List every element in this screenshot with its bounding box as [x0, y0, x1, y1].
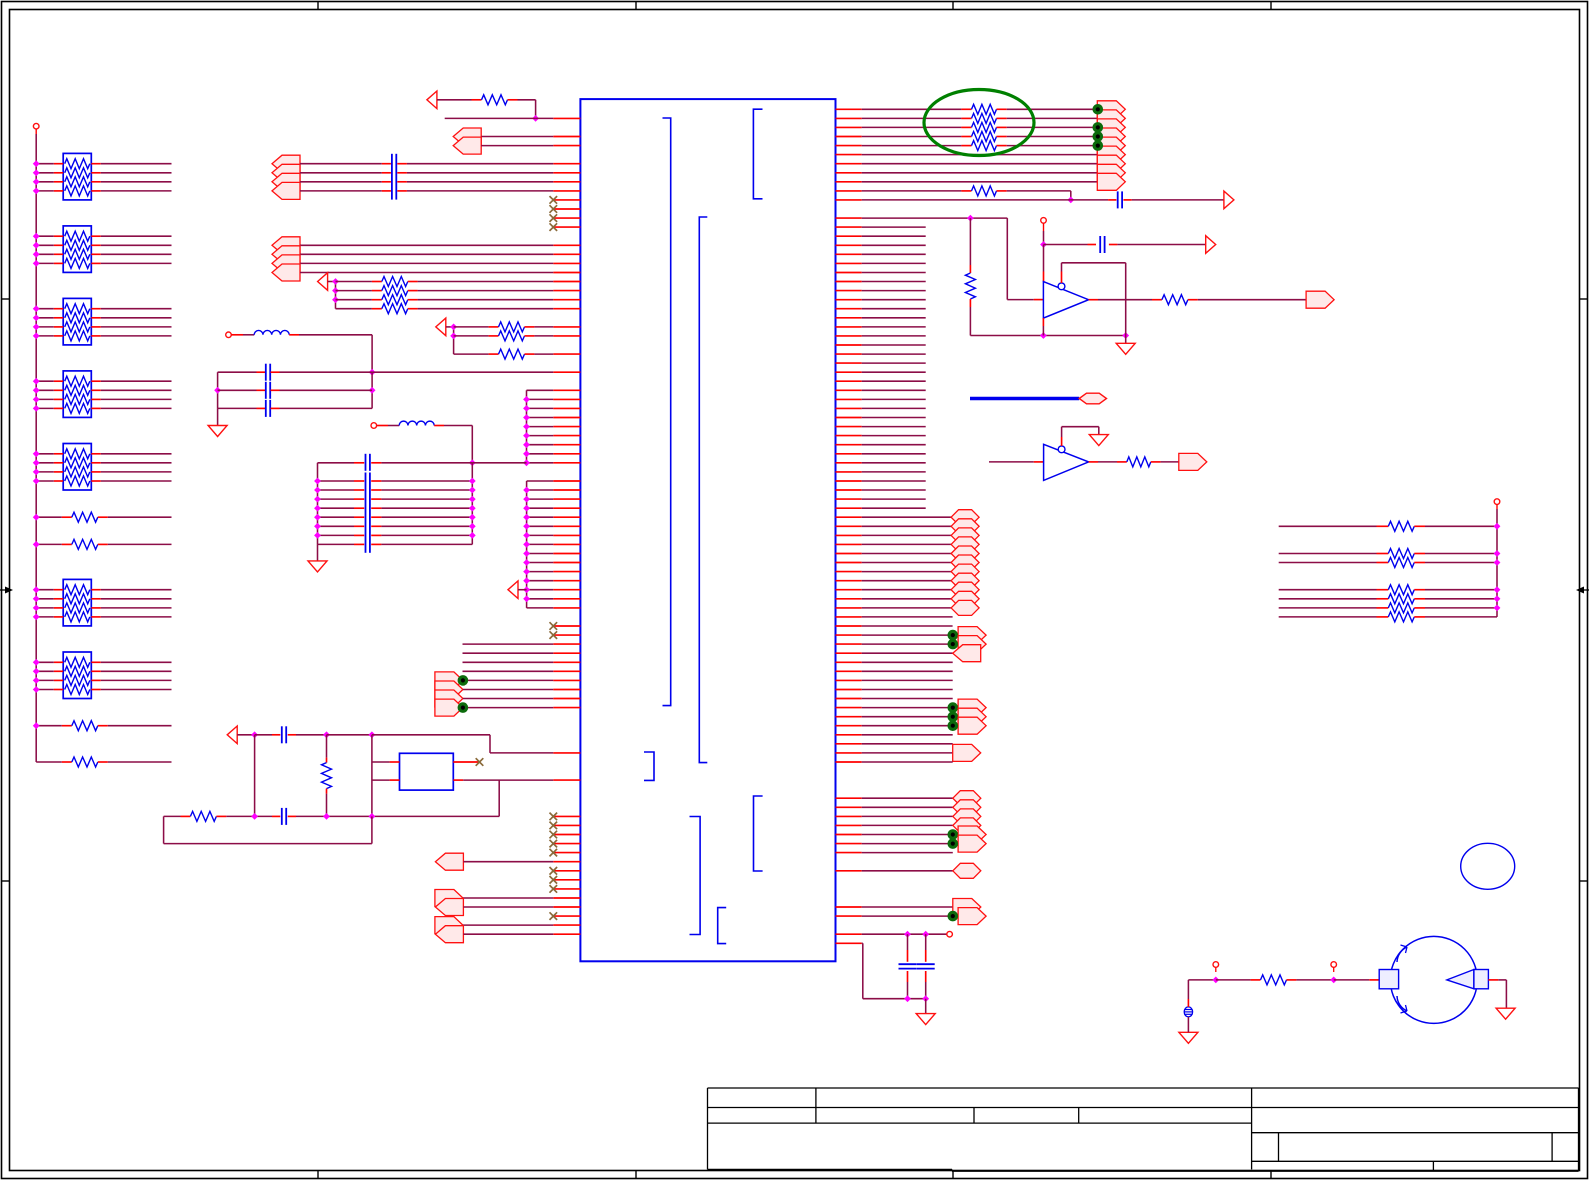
wire row 62 — [463, 670, 554, 672]
wire down to row29 — [371, 335, 373, 372]
node r12 — [967, 215, 974, 222]
resistor pack RP3 pin wires row 25 — [54, 335, 63, 337]
node capbank R 41 — [469, 478, 476, 485]
U2 left pin row74 — [390, 779, 400, 781]
resistor R row 27 — [499, 349, 525, 359]
wire row 63 — [463, 679, 553, 681]
bus vertical rows 31-39 — [526, 390, 528, 463]
pin left row 59 — [553, 643, 580, 645]
wire row 18 stub — [862, 272, 926, 274]
wire R to IC row 24 — [525, 326, 535, 328]
wire row 50 — [862, 562, 951, 564]
resistor pack RP5 pin wires row 41 — [54, 480, 63, 482]
wire row 21 stub — [862, 299, 926, 301]
wire r3 b — [997, 136, 1007, 138]
U3 bottom lead — [1042, 318, 1044, 326]
cap C10 lead b — [925, 971, 927, 982]
wire row 60 — [862, 652, 953, 654]
no-connect pin left row 84 — [553, 870, 580, 872]
pin left row 51 — [553, 571, 580, 573]
pin left row 38 — [553, 453, 580, 455]
pin right row 21 — [836, 299, 862, 301]
wire net row 49 b — [1414, 553, 1425, 555]
U3 output — [1089, 299, 1098, 301]
wire net row 55 a — [1279, 607, 1377, 609]
ground symbol G5 — [1089, 435, 1108, 446]
node bus2 row 44 — [523, 505, 530, 512]
ground symbol G1 — [217, 408, 219, 425]
wire row 20 stub — [862, 290, 926, 292]
pin right row 79 — [836, 824, 862, 826]
chevron row 60 — [953, 645, 981, 662]
border tick right 2 — [1580, 880, 1588, 882]
pin right row 16 — [836, 253, 862, 255]
resistor R1 — [36, 516, 62, 518]
pin left row 17 — [553, 262, 580, 264]
border tick top 1 — [317, 2, 319, 10]
pin right row 55 — [836, 607, 862, 609]
wire r2 b — [997, 126, 1007, 128]
cap C10 leads — [925, 934, 927, 950]
node 244 — [1040, 241, 1047, 248]
wire bus2 row 55 to IC — [527, 607, 554, 609]
wire net row 46 b — [1414, 525, 1425, 527]
pin right row 37 — [836, 444, 862, 446]
border tick top 3 — [952, 2, 954, 10]
wire row 15 stub — [862, 244, 926, 246]
node bus row 19 — [332, 278, 339, 285]
wire row 4 — [481, 145, 553, 147]
capacitor bank plates upper — [365, 454, 367, 471]
output flag T14 — [1179, 453, 1207, 470]
wire row 38 stub — [862, 453, 926, 455]
wire r7 — [862, 172, 1098, 174]
no-connect pin left row 89 — [553, 915, 580, 917]
pin right row 26 — [836, 344, 862, 346]
wire into motor — [1334, 979, 1370, 981]
pin right row 50 — [836, 562, 862, 564]
wire row 55 — [862, 607, 951, 609]
node bus1 row 33 — [523, 405, 530, 412]
wire capbank row 46 right — [371, 525, 381, 527]
node bus2 row 47 — [523, 532, 530, 539]
resistor pack RP1 pin wires row 6 — [54, 163, 63, 165]
node bus1 row 32 — [523, 396, 530, 403]
wire capbank row 39 right — [371, 462, 381, 464]
node bus2 row 46 — [523, 523, 530, 530]
node right bus 49 — [1494, 550, 1501, 557]
vertical c — [371, 735, 373, 817]
pin right row 62 — [836, 670, 862, 672]
motor M1 brush arcs — [1397, 947, 1407, 962]
power terminal T1 — [33, 123, 39, 129]
pin right row 66 — [836, 707, 862, 709]
pin right row 58 — [836, 634, 862, 636]
node 69b — [323, 731, 330, 738]
pin right row 64 — [836, 689, 862, 691]
wire row 92 corner — [862, 942, 863, 944]
wire capbank row 48 right — [371, 543, 381, 545]
pin left row 7 — [553, 172, 580, 174]
node capbank R 42 — [469, 487, 476, 494]
bus entry row 46 — [951, 519, 979, 534]
resistor pack RP4 pin wires row 32 — [54, 398, 63, 400]
green dot row 89 — [948, 911, 959, 922]
wire bus row 34 to IC — [527, 417, 554, 419]
wire R19 to motor — [1287, 979, 1297, 981]
pin right row 15 — [836, 244, 862, 246]
pin right row 80 — [836, 834, 862, 836]
node capbank L 43 — [314, 496, 321, 503]
pin right row 44 — [836, 507, 862, 509]
connector J2 chevron 4 — [272, 264, 300, 281]
ground symbol G2 — [317, 544, 319, 561]
title block — [708, 1087, 1579, 1089]
wire bus to R row 22 — [336, 308, 372, 310]
pin left row 27 — [553, 353, 580, 355]
no-connect pin left row 82 — [553, 852, 580, 854]
pin right row 70 — [836, 743, 862, 745]
resistor pack RP3 — [63, 298, 91, 345]
node bus1 row 39 — [523, 459, 530, 466]
pin left row 48 — [553, 543, 580, 545]
op-amp U3 — [1043, 282, 1088, 319]
pin right row 47 — [836, 534, 862, 536]
pin right row 9 — [836, 190, 862, 192]
pin right row 0 — [836, 108, 862, 110]
capacitor CA3 — [265, 400, 267, 417]
wire R to IC row 20 — [408, 290, 418, 292]
pin left row 37 — [553, 444, 580, 446]
green dot row 0 — [1093, 104, 1104, 115]
terminal T13 — [947, 931, 953, 937]
flag row 80 — [958, 826, 986, 843]
resistor R row 54 — [1388, 594, 1414, 604]
wire r0 a — [862, 108, 962, 110]
resistor pack RP1 — [63, 153, 91, 200]
wire r12 — [862, 217, 1008, 219]
wire row 68 — [862, 725, 953, 727]
wire row 52 — [862, 580, 951, 582]
resistor pack RP7 pin wires row 62 — [54, 670, 63, 672]
node 335b — [1122, 332, 1129, 339]
node row31 right — [369, 387, 376, 394]
pin right row 39 — [836, 462, 862, 464]
left power bus — [35, 134, 37, 762]
decorative ellipse — [1461, 843, 1515, 889]
no-connect pin left row 78 — [553, 815, 580, 817]
pin left row 25 — [553, 335, 580, 337]
resistor pack RP7 pin wires row 63 — [54, 679, 63, 681]
wire J1 to C1 — [300, 163, 382, 165]
wire row 56 stub — [862, 616, 953, 618]
pin right row 17 — [836, 262, 862, 264]
wire row 62 stub — [862, 670, 953, 672]
pin right row 13 — [836, 226, 862, 228]
wire row 35 stub — [862, 426, 926, 428]
inductor L2 — [399, 421, 434, 425]
IC U1 internal bracket 2 — [754, 796, 763, 871]
wire row 27 stub — [862, 353, 926, 355]
wire bus2 row 43 to IC — [527, 498, 554, 500]
ground symbol G4 — [925, 999, 927, 1014]
pin left row 44 — [553, 507, 580, 509]
node capbank L 42 — [314, 487, 321, 494]
inductor L1 — [254, 330, 289, 334]
pin right row 6 — [836, 163, 862, 165]
wire capbank row 43 left — [318, 498, 355, 500]
pin left row 19 — [553, 281, 580, 283]
wire row 25 stub — [862, 335, 926, 337]
wire row 13 stub — [862, 226, 926, 228]
wire C3 to IC — [397, 181, 407, 183]
border tick left 1 — [2, 298, 10, 300]
wire gnd to sym — [1187, 1017, 1189, 1032]
op-amp U4 — [1044, 444, 1089, 480]
IC U1 internal bracket 4 — [690, 817, 701, 935]
capbank left bus — [317, 463, 319, 545]
wire r9 a — [862, 190, 962, 192]
connector chevron right row 4 — [1097, 137, 1125, 154]
node r10 — [1067, 197, 1074, 204]
motor M1 cone — [1447, 970, 1474, 989]
resistor R row 56 — [1388, 612, 1414, 622]
node bus2 row 45 — [523, 514, 530, 521]
wire L1 right — [289, 334, 299, 336]
border tick bottom 2 — [635, 1171, 637, 1179]
resistor R18 — [1127, 457, 1151, 467]
terminal arrow T8 — [227, 726, 237, 744]
node bus2 row 49 — [523, 550, 530, 557]
wire net row 49 a — [1279, 553, 1377, 555]
wire row 82 stub — [862, 852, 953, 854]
capacitor C8 — [1099, 236, 1101, 253]
node bus row 20 — [332, 287, 339, 294]
pin right row 3 — [836, 136, 862, 138]
wire row 23 stub — [862, 317, 926, 319]
connector chevron right row 3 — [1097, 128, 1125, 145]
cap left bus — [217, 372, 219, 408]
node capbank L 47 — [314, 532, 321, 539]
node capbank R 44 — [469, 505, 476, 512]
wire T5 to L1 — [231, 334, 243, 336]
wire row 14 stub — [862, 235, 926, 237]
pin right row 71 — [836, 752, 862, 754]
node bus2 row 51 — [523, 568, 530, 575]
pin right row 1 — [836, 117, 862, 119]
bus entry row 50 — [951, 555, 979, 570]
pin right row 63 — [836, 679, 862, 681]
motor M1 right box — [1474, 970, 1489, 989]
wire row 29 stub — [862, 371, 926, 373]
bus entry row 53 — [951, 582, 979, 597]
pin right row 65 — [836, 698, 862, 700]
node motor a — [1212, 977, 1219, 984]
terminal T5 — [226, 332, 232, 338]
pin left row 87 — [553, 897, 580, 899]
capacitor bank C1-C4 plates — [391, 154, 393, 200]
resistor R10 — [972, 104, 997, 114]
wire row 78 b — [216, 815, 226, 817]
wire row39 link — [472, 462, 526, 464]
wire to R19 — [1216, 979, 1251, 981]
pin right row 43 — [836, 498, 862, 500]
green dot row 59 — [948, 639, 959, 650]
resistor pack RP2 pin wires row 16 — [54, 253, 63, 255]
border tick left 2 — [2, 880, 10, 882]
wire capbank row 44 left — [318, 507, 355, 509]
connector chevron row 91 — [435, 926, 463, 943]
wire row 31 stub — [862, 389, 926, 391]
bus entry row 54 — [951, 591, 979, 606]
wire r1 b — [997, 117, 1007, 119]
wire row 58 — [862, 634, 953, 636]
capacitor CA1 — [265, 364, 267, 381]
pin right row 14 — [836, 235, 862, 237]
node 91a — [904, 931, 911, 938]
connector J3 chevron 2 — [435, 681, 463, 698]
node bus2 row 42 — [523, 487, 530, 494]
wire row 43 stub — [862, 498, 926, 500]
flag row 58 — [958, 627, 986, 644]
connector J1 chevron 1 — [272, 155, 300, 172]
resistor pack RP2 — [63, 226, 91, 273]
wire row 61 stub — [862, 661, 953, 663]
pin right row 54 — [836, 598, 862, 600]
border tick bottom 1 — [317, 1171, 319, 1179]
resistor R14 — [972, 141, 997, 151]
wire bus2 row 47 to IC — [527, 534, 554, 536]
pin left row 35 — [553, 426, 580, 428]
node right bus 46 — [1494, 523, 1501, 530]
wire bus2 row 50 to IC — [527, 562, 554, 564]
no-connect pin left row 57 — [553, 625, 580, 627]
connector J2 chevron 2 — [272, 246, 300, 263]
highlight ellipse — [924, 90, 1034, 156]
ground symbol G3 — [1125, 336, 1127, 344]
wire r2 a — [862, 126, 962, 128]
wire bus row 32 to IC — [527, 398, 554, 400]
wire row 76 — [862, 797, 953, 799]
resistor pack RP2 pin wires row 17 — [54, 262, 63, 264]
U4 output — [1089, 461, 1098, 463]
input arrow T2 — [427, 91, 437, 109]
border tick top 2 — [635, 2, 637, 10]
terminal T17 — [1331, 962, 1337, 968]
wire U4 in — [989, 461, 1034, 463]
resistor pack RP1 pin wires row 7 — [54, 172, 63, 174]
green dot row 67 — [948, 711, 959, 722]
wire r0 b — [997, 108, 1007, 110]
node right bus 54 — [1494, 595, 1501, 602]
pin right row 20 — [836, 290, 862, 292]
wire cap 244 — [1044, 244, 1088, 246]
wire row 17 stub — [862, 262, 926, 264]
green dot row 58 — [948, 630, 959, 641]
pin left row 24 — [553, 326, 580, 328]
border center arrow left — [0, 589, 9, 591]
wire R16 down — [969, 299, 971, 307]
no-connect pin left row 86 — [553, 888, 580, 890]
wire r3 a — [862, 136, 962, 138]
node row74 T — [498, 780, 500, 816]
resistor R4 — [36, 761, 62, 763]
pin right row 77 — [836, 806, 862, 808]
wire row 44 stub — [862, 507, 926, 509]
wire R18 to flag — [1151, 461, 1161, 463]
node bus2 row 48 — [523, 541, 530, 548]
resistor pack RP7 pin wires row 61 — [54, 661, 63, 663]
resistor R12 — [972, 122, 997, 132]
motor M1 terminal box — [1379, 970, 1398, 989]
wire row 19 stub — [862, 281, 926, 283]
wire row 46 — [862, 525, 951, 527]
resistor pack RP4 pin wires row 33 — [54, 407, 63, 409]
pin right row 59 — [836, 643, 862, 645]
wire row 45 — [862, 516, 951, 518]
wire R17 to flag — [1188, 299, 1198, 301]
pin left row 55 — [553, 607, 580, 609]
pin left row 42 — [553, 489, 580, 491]
connector J2 chevron 3 — [272, 255, 300, 272]
output arrow T11 — [1206, 236, 1216, 254]
bus entry row 76 — [953, 791, 981, 806]
wire bus2 row 48 to IC — [527, 543, 554, 545]
wire capbank row 44 right — [371, 507, 381, 509]
wire row 78 — [164, 815, 181, 817]
pin right row 41 — [836, 480, 862, 482]
resistor pack RP2 pin wires row 15 — [54, 244, 63, 246]
wire row 51 — [862, 571, 951, 573]
pin left row 29 — [553, 371, 580, 373]
wire row 39 stub — [862, 462, 926, 464]
capacitor C6 — [281, 808, 283, 825]
pin right row 89 — [836, 915, 862, 917]
green dot row 4 — [1093, 140, 1104, 151]
node capbank L 44 — [314, 505, 321, 512]
flag row 68 — [958, 717, 986, 734]
pin right row 38 — [836, 453, 862, 455]
wire capbank row 43 right — [371, 498, 381, 500]
wire bus2 to R row 25 — [454, 335, 489, 337]
no-connect pin left row 85 — [553, 879, 580, 881]
pin left row 53 — [553, 589, 580, 591]
wire bus to R row 21 — [336, 299, 372, 301]
wire down to row39 — [471, 426, 473, 463]
pin right row 69 — [836, 734, 862, 736]
U2 left pin row72 — [390, 761, 400, 763]
connector J2 chevron 1 — [272, 237, 300, 254]
pin right row 45 — [836, 516, 862, 518]
flag row 59 — [958, 636, 986, 653]
pin right row 5 — [836, 154, 862, 156]
connector chevron right row 2 — [1097, 119, 1125, 136]
node capbank R 47 — [469, 532, 476, 539]
pin right row 76 — [836, 797, 862, 799]
wire row 54 — [862, 598, 951, 600]
wire arrow to bus2 — [446, 326, 454, 328]
connector chevron right row 0 — [1097, 101, 1125, 118]
no-connect pin left row 13 — [553, 226, 580, 228]
wire T6 to L2 — [377, 425, 388, 427]
node cap bus 31 — [214, 387, 221, 394]
connector chevron right row 6 — [1097, 155, 1125, 172]
resistor R row 49 — [1388, 549, 1414, 559]
wire capA row 33 right — [271, 407, 280, 409]
resistor pack RP6 pin wires row 53 — [54, 589, 63, 591]
wire capbank row 42 left — [318, 489, 355, 491]
wire bus to R row 19 — [336, 281, 372, 283]
